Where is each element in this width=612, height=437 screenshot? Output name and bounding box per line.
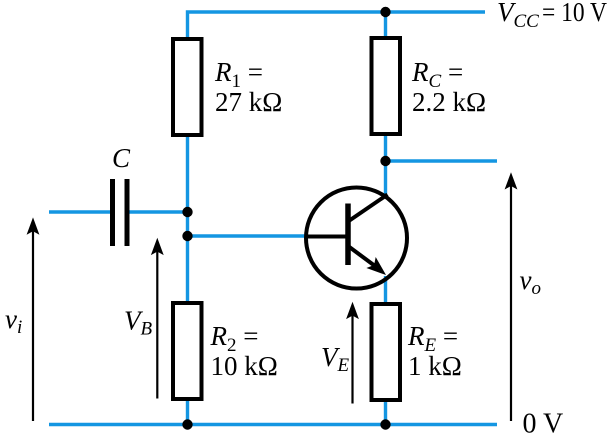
wire: R1 bottom down through node A/B to R2 top	[186, 136, 189, 302]
wire: base wire from node B to transistor	[188, 234, 307, 237]
wire: input left segment to capacitor	[49, 210, 110, 213]
svg-text:0 V: 0 V	[523, 409, 564, 437]
arrow VB	[151, 238, 164, 399]
wire: VCC top rail with corner down to R1 top	[188, 12, 486, 38]
node: collector output junction	[380, 156, 390, 166]
transistor Q1	[305, 188, 407, 289]
wire: transistor emitter to RE top	[384, 276, 387, 303]
svg-text:1 kΩ: 1 kΩ	[408, 351, 462, 381]
svg-text:27 kΩ: 27 kΩ	[215, 87, 282, 117]
node: R2 to ground rail	[182, 419, 192, 429]
node: top rail junction	[380, 7, 390, 17]
capacitor C plate right	[125, 179, 130, 246]
arrow VE	[346, 302, 359, 404]
capacitor C plate left	[110, 179, 115, 246]
resistor RC	[372, 38, 401, 134]
svg-text:C: C	[112, 143, 131, 173]
resistor R1	[173, 39, 202, 135]
arrow vi	[27, 217, 40, 421]
node B: base tap	[182, 231, 192, 241]
wire: RC bottom through collector node to transistor collector	[384, 136, 387, 196]
arrow vo	[505, 172, 518, 421]
label R2 value	[210, 321, 278, 381]
wire: top rail stub to RC top	[384, 12, 387, 37]
label R1 value	[214, 57, 282, 117]
resistor R2	[173, 303, 202, 399]
wire: output wire from collector node	[386, 159, 498, 162]
wire: R2 bottom to ground rail	[186, 401, 189, 425]
wire: RE bottom to ground rail	[384, 402, 387, 425]
wire: 0 V bottom rail	[49, 423, 497, 426]
label RC value	[411, 57, 486, 117]
svg-text:10 kΩ: 10 kΩ	[211, 351, 278, 381]
wire: capacitor to node A	[130, 210, 188, 213]
node A: capacitor to divider	[182, 207, 192, 217]
node: RE to ground rail	[380, 419, 390, 429]
resistor RE	[372, 304, 401, 400]
svg-text:2.2 kΩ: 2.2 kΩ	[412, 87, 486, 117]
label RE value	[407, 321, 462, 381]
